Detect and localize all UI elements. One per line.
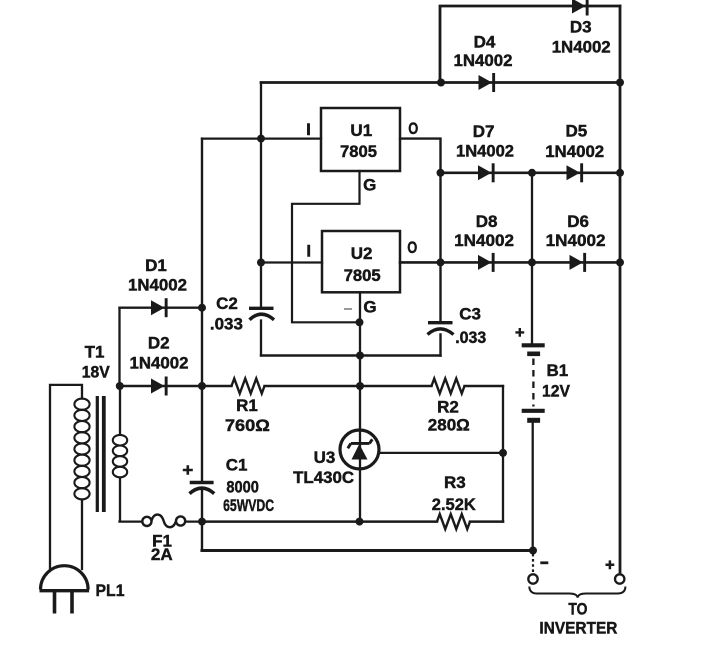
capacitor C1 (183, 465, 214, 493)
wire secondary bottom lead (120, 479, 143, 522)
resistor R1 (232, 379, 265, 394)
wire R1/R2 row y=386 (120, 385, 504, 387)
junction ground bus (356, 352, 364, 360)
junction D1 cathode (198, 304, 206, 312)
svg-text:7805: 7805 (340, 142, 377, 161)
svg-text:D7: D7 (473, 122, 495, 141)
svg-text:D1: D1 (145, 256, 167, 275)
wire D7/D5 row y=172.8 (441, 172, 621, 175)
svg-text:C2: C2 (216, 294, 238, 313)
junction D8 row left (437, 258, 445, 266)
svg-text:T1: T1 (85, 343, 105, 362)
junction D2 cathode (198, 382, 206, 390)
svg-text:.033: .033 (210, 315, 243, 334)
junction U2 input (257, 259, 265, 267)
junction D8 row right (616, 258, 624, 266)
svg-text:.033: .033 (455, 328, 486, 347)
svg-text:760Ω: 760Ω (225, 416, 270, 435)
plug PL1 (40, 566, 90, 614)
wire bottom rail y=550.5 (202, 549, 533, 552)
svg-text:B1: B1 (547, 361, 569, 380)
wire U3 reference y=452.9 (379, 452, 504, 454)
svg-text:R2: R2 (437, 397, 459, 416)
svg-text:D6: D6 (567, 212, 589, 231)
junction ground column R row (356, 382, 364, 390)
svg-text:O: O (408, 119, 418, 138)
resistor R2 (432, 379, 465, 394)
svg-text:1N4002: 1N4002 (454, 231, 514, 250)
svg-text:7805: 7805 (344, 266, 381, 285)
svg-text:18V: 18V (82, 363, 111, 382)
capacitor C2 (249, 308, 274, 320)
wire top loop (D3 branch) (440, 6, 620, 83)
svg-text:1N4002: 1N4002 (456, 142, 514, 161)
diode D1 (151, 298, 168, 317)
wire R3 row y=521.6 (202, 520, 503, 523)
junction U3 reference (499, 449, 507, 457)
diode D2 (151, 377, 168, 396)
diode D5 (567, 163, 584, 182)
svg-text:1N4002: 1N4002 (454, 51, 513, 70)
svg-text:U3: U3 (314, 448, 336, 467)
transformer T1 (74, 396, 127, 512)
junction G node (356, 318, 364, 326)
svg-text:I: I (306, 242, 311, 261)
wire secondary top lead (119, 386, 121, 433)
capacitor C3 (428, 323, 454, 335)
wire x=119.5 secondary column (118, 308, 120, 386)
wire x=503 column (502, 386, 504, 522)
junction negative rail (529, 547, 537, 555)
svg-text:12V: 12V (542, 382, 571, 401)
svg-text:G: G (363, 298, 376, 317)
svg-text:U2: U2 (351, 244, 373, 263)
junction D7 row left (437, 169, 445, 177)
svg-text:1N4002: 1N4002 (130, 354, 189, 373)
wire U1 output to diode column (400, 139, 441, 356)
svg-text:I: I (306, 120, 311, 139)
diode D8 (478, 253, 495, 272)
terminal plus (606, 560, 625, 583)
wire right bus (619, 6, 622, 572)
svg-text:INVERTER: INVERTER (539, 619, 617, 638)
svg-text:C1: C1 (226, 455, 248, 474)
junction right bus top (616, 79, 624, 87)
junction D2 anode (116, 382, 124, 390)
wire ground column x=360 through U3 (359, 292, 361, 521)
svg-text:1N4002: 1N4002 (546, 231, 606, 250)
svg-text:2.52K: 2.52K (432, 495, 477, 514)
wire U1 input (202, 137, 321, 139)
brace TO INVERTER (529, 587, 625, 598)
svg-text:TL430C: TL430C (293, 468, 354, 487)
svg-text:G: G (363, 176, 376, 195)
wire U1 ground path (292, 171, 360, 322)
wire ground bus y=355.5 (261, 354, 441, 356)
fuse F1 (142, 515, 185, 528)
svg-text:U1: U1 (350, 121, 372, 140)
svg-text:D4: D4 (474, 33, 496, 52)
wire battery column bottom (532, 423, 534, 551)
svg-text:D2: D2 (148, 334, 170, 353)
terminal minus (528, 554, 548, 584)
diode D3 (572, 0, 589, 16)
svg-text:R3: R3 (444, 473, 466, 492)
op-amp U1 box 7805 (321, 108, 400, 171)
svg-text:O: O (407, 238, 417, 257)
svg-text:1N4002: 1N4002 (552, 38, 611, 57)
junction F1 C1 (198, 518, 206, 526)
svg-text:TO: TO (568, 600, 587, 619)
svg-text:280Ω: 280Ω (428, 416, 470, 435)
op-amp U2 box 7805 (322, 231, 400, 292)
junction D7 row middle (528, 169, 536, 177)
svg-text:D3: D3 (570, 18, 592, 37)
resistor R3 (437, 514, 470, 529)
junction U3 anode (356, 518, 364, 526)
svg-text:2A: 2A (151, 545, 173, 564)
svg-text:C3: C3 (459, 305, 481, 324)
svg-text:D8: D8 (476, 212, 498, 231)
regulator U3 TL430C (340, 430, 379, 469)
battery B1 (515, 328, 544, 420)
junction U1 input column (257, 135, 265, 143)
svg-text:PL1: PL1 (96, 581, 125, 600)
junction D7 row right (616, 169, 624, 177)
svg-text:8000: 8000 (226, 478, 259, 497)
svg-text:65WVDC: 65WVDC (223, 496, 274, 515)
stray dash near U2 G (344, 308, 352, 310)
wire D1 row y=307.7 (120, 307, 203, 309)
svg-text:1N4002: 1N4002 (128, 276, 187, 295)
wire D4 row y=82.5 (261, 81, 620, 84)
junction D4 anode (437, 79, 445, 87)
wire x=261 input column (260, 83, 262, 356)
diode D7 (478, 163, 495, 182)
diode D6 (570, 253, 587, 272)
svg-text:R1: R1 (236, 396, 258, 415)
junction D8 row middle (528, 258, 536, 266)
wire D8/D6 row y=262.4 (400, 261, 620, 264)
svg-text:1N4002: 1N4002 (545, 142, 604, 161)
wire U2 input (261, 261, 322, 263)
svg-text:D5: D5 (566, 122, 588, 141)
wire battery column top (531, 173, 533, 344)
wire primary leads (50, 385, 82, 569)
wire x=202 raw DC bus (201, 139, 203, 551)
wire fuse to junction (185, 520, 202, 522)
diode D4 (479, 73, 496, 92)
